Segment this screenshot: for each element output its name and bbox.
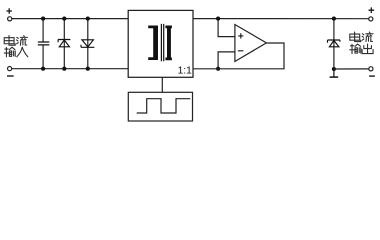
- transformer T1 box: [128, 10, 193, 77]
- wire bottom rail left: [12, 68, 128, 70]
- diode D3 wire: [333, 19, 335, 69]
- transformer T1 core: [161, 24, 163, 61]
- char 流: [17, 36, 28, 46]
- output + terminal: [369, 17, 373, 21]
- char 电: [350, 32, 361, 42]
- svg-text:1:1: 1:1: [178, 66, 192, 77]
- wire bottom rail right output: [334, 68, 369, 70]
- output + polarity sign: [369, 7, 375, 13]
- square wave symbol: [137, 99, 191, 113]
- char 流: [362, 32, 373, 42]
- diode D3 (points up): [328, 40, 340, 47]
- transformer T1 left winding: [148, 26, 158, 61]
- char 输: [4, 47, 15, 57]
- wire transformer to oscillator: [161, 77, 163, 92]
- input - terminal: [8, 67, 12, 71]
- char 入: [17, 47, 28, 57]
- label 电流输入 (current input): [4, 36, 28, 57]
- junction dots top rail left: [41, 17, 90, 21]
- capacitor C1 bottom wire: [42, 46, 44, 69]
- char 电: [4, 36, 15, 46]
- char 出: [362, 44, 373, 54]
- wire op-amp output feedback loop: [193, 43, 284, 69]
- wire top rail left: [12, 18, 128, 20]
- ground stub: [330, 69, 339, 77]
- op-amp - pin label: [238, 50, 244, 52]
- wire top rail right: [193, 18, 369, 20]
- input + polarity sign: [6, 8, 12, 14]
- junction dot at -input tap: [216, 67, 220, 71]
- transformer T1 right winding: [165, 26, 172, 61]
- input + terminal: [8, 17, 12, 21]
- input - polarity sign: [7, 75, 14, 77]
- char 输: [350, 44, 361, 54]
- capacitor C1 top wire: [42, 19, 44, 42]
- junction dot top rail at D3: [332, 17, 336, 21]
- op-amp U1: [235, 25, 267, 62]
- diode D2 (points down): [81, 40, 94, 48]
- oscillator block: [128, 92, 192, 121]
- capacitor C1 plates: [38, 42, 50, 45]
- diode D1 wire: [63, 19, 65, 69]
- diode D1 (points up): [58, 40, 70, 47]
- diode D2 wire: [87, 19, 89, 69]
- wire op-amp -input stub: [218, 52, 235, 69]
- label 电流输出 (current output): [350, 32, 373, 54]
- output - terminal: [369, 67, 373, 71]
- op-amp + pin label: [238, 33, 243, 38]
- junction dot at +input tap: [216, 17, 220, 21]
- junction dots bottom rail left: [41, 67, 90, 71]
- output - polarity sign: [369, 75, 375, 77]
- wire op-amp +input stub: [218, 19, 235, 37]
- junction dot bottom at D3: [332, 67, 336, 71]
